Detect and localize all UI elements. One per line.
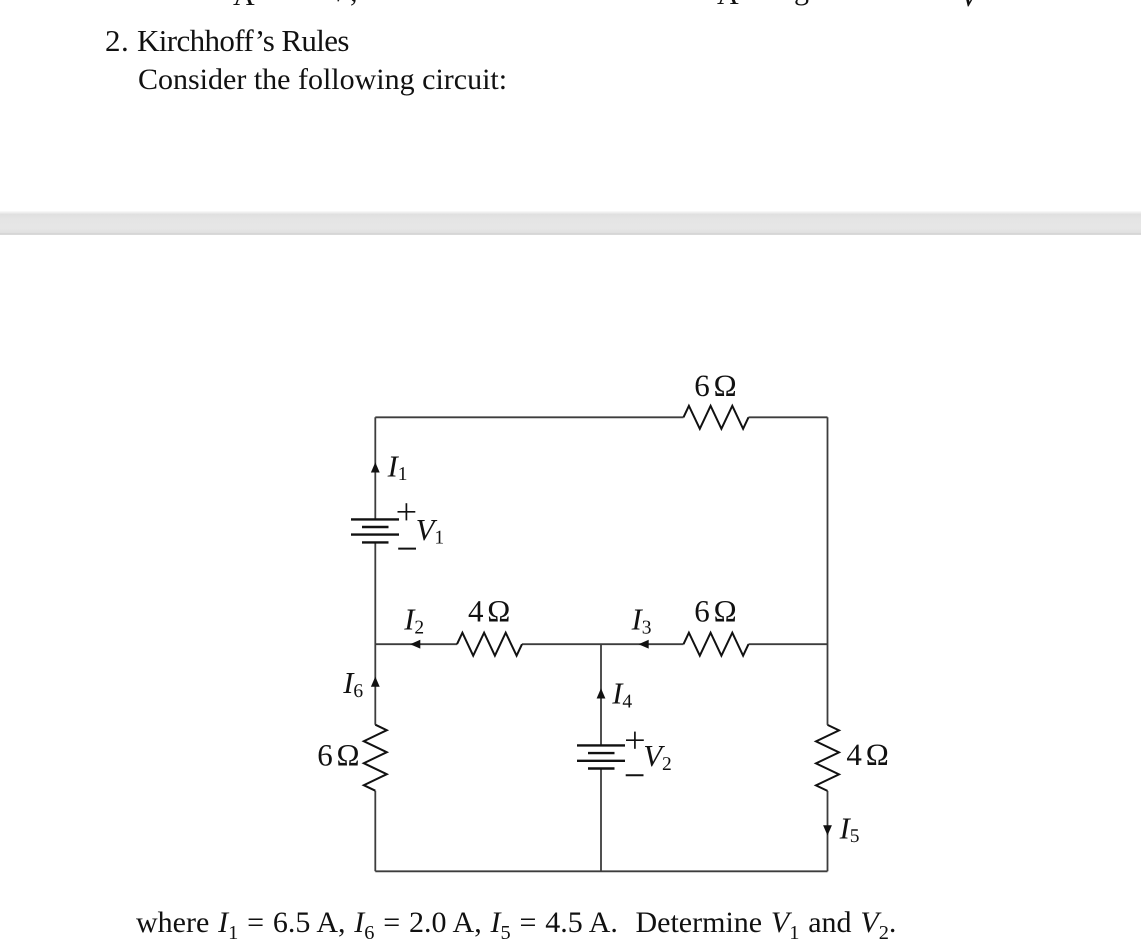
heading: 2. Kirchhoff's Rules — [105, 25, 121, 56]
current arrow I6 (up, on left wire) — [371, 677, 380, 687]
current arrow I4 (up, on middle vertical wire) — [597, 688, 606, 698]
label + (battery V2 positive) — [626, 732, 644, 749]
svg-text:I5: I5 — [839, 811, 860, 847]
svg-text:I6: I6 — [342, 666, 363, 702]
bottom problem statement — [136, 908, 896, 943]
wire: middle vertical, center node to battery V2 — [600, 644, 602, 745]
label minus (battery V1 negative) — [398, 548, 416, 550]
svg-text:I1: I1 — [387, 449, 408, 485]
heading line 2: Consider the following circuit: — [138, 65, 507, 95]
wire: left vertical, above battery V1 — [374, 417, 376, 519]
wire: top, left segment before R1 — [375, 416, 683, 418]
svg-text:4Ω: 4Ω — [846, 737, 888, 772]
battery V2 plates (long,short,long,short) — [577, 744, 625, 746]
wire: bottom horizontal — [375, 870, 827, 872]
svg-text:V2: V2 — [643, 739, 671, 775]
wire: middle horizontal, R2 to center node — [522, 643, 684, 645]
wire: left vertical, battery V1 to middle node — [374, 542, 376, 724]
svg-text:I3: I3 — [631, 603, 652, 639]
resistor R5 4 ohm (right vertical) — [816, 725, 839, 791]
current arrow I3 (left, on middle wire) — [639, 640, 649, 649]
svg-text:4Ω: 4Ω — [468, 594, 510, 629]
svg-text:6Ω: 6Ω — [694, 368, 736, 403]
label minus (battery V2 negative) — [626, 774, 644, 776]
wire: right vertical, top to resistor R5 — [827, 417, 829, 725]
wire: top, right segment after R1 — [749, 416, 828, 418]
resistor R3 6 ohm (middle right) — [684, 633, 749, 656]
gray page-gap band — [0, 211, 1141, 235]
svg-text:6Ω: 6Ω — [317, 738, 359, 773]
wire: left vertical, below resistor R4 — [374, 791, 376, 872]
resistor R1 6 ohm (top) — [684, 406, 749, 429]
label + (battery V1 positive) — [398, 503, 416, 520]
current arrow I1 (up, on left wire) — [371, 462, 380, 472]
wire: middle horizontal, R3 to right wire — [749, 643, 828, 645]
battery V1 plates (long,short,long,short) — [351, 518, 399, 520]
svg-text:V1: V1 — [416, 513, 444, 549]
wire: middle vertical, battery V2 to bottom — [600, 769, 602, 872]
svg-text:I2: I2 — [403, 603, 424, 639]
wire: right vertical, below resistor R5 — [827, 791, 829, 871]
top cut-off text fragments from previous line — [0, 0, 1141, 9]
svg-text:I4: I4 — [611, 677, 632, 713]
wire: middle horizontal, left node to R2 — [375, 643, 457, 645]
resistor R2 4 ohm (middle left) — [457, 633, 522, 656]
current arrow I5 (down, on right wire) — [823, 825, 832, 835]
svg-text:6Ω: 6Ω — [694, 594, 736, 629]
current arrow I2 (left, on middle wire) — [410, 640, 420, 649]
resistor R4 6 ohm (left vertical) — [364, 725, 387, 791]
